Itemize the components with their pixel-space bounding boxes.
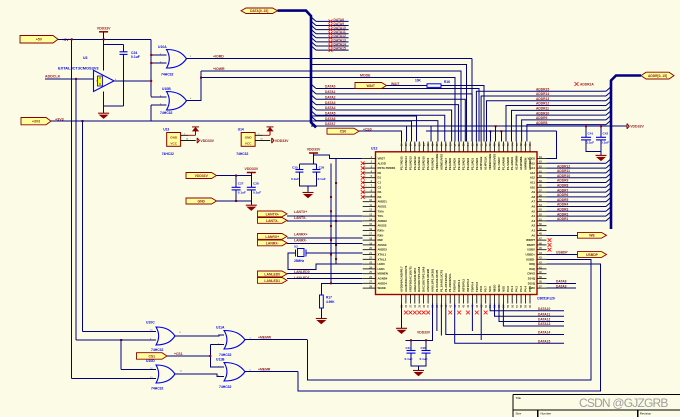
svg-text:P3.7/AD15: P3.7/AD15 bbox=[400, 156, 404, 170]
svg-text:+5V: +5V bbox=[62, 38, 69, 42]
capacitor C25 plates bbox=[295, 170, 303, 173]
svg-text:EMU: EMU bbox=[529, 286, 535, 290]
wire pin col to rail2 bbox=[495, 126, 497, 141]
svg-text:ADDR15: ADDR15 bbox=[536, 87, 549, 91]
svg-text:U14: U14 bbox=[238, 128, 244, 132]
svg-text:VDD33V: VDD33V bbox=[97, 26, 111, 30]
pin 7 U14 bbox=[255, 134, 262, 136]
wire U10D out to U11B in2 bbox=[175, 374, 224, 376]
svg-text:ADDR2A: ADDR2A bbox=[580, 82, 594, 86]
wire loop U11A output net bbox=[307, 259, 591, 380]
svg-text:DATA[0..15]: DATA[0..15] bbox=[250, 9, 268, 13]
svg-text:GND: GND bbox=[197, 199, 205, 203]
wire U14 pin7 to arrow bbox=[263, 134, 271, 136]
port CS0 bbox=[327, 128, 359, 134]
ic U12 top pins bbox=[402, 142, 531, 152]
power VDD33V U14 bbox=[272, 138, 274, 143]
wire to gnd bbox=[307, 186, 309, 193]
wire DATA14 with bus entry bbox=[311, 42, 316, 47]
wire WAIT to IC pin bbox=[441, 86, 484, 142]
wire vertical net C bbox=[82, 121, 84, 332]
svg-text:P3.1/AD9: P3.1/AD9 bbox=[426, 157, 430, 170]
title block border bbox=[513, 395, 680, 417]
wire DATA14 from bottom pin bbox=[446, 304, 564, 335]
svg-text:C41: C41 bbox=[588, 132, 594, 136]
svg-text:C28: C28 bbox=[253, 182, 259, 186]
junction bbox=[71, 38, 73, 40]
svg-text:AGND2/VSS: AGND2/VSS bbox=[493, 154, 497, 170]
capacitor C26 plates bbox=[312, 170, 320, 173]
wire V- pin to ground bbox=[103, 92, 105, 114]
svg-text:C2: C2 bbox=[378, 185, 382, 189]
svg-text:AVDD4: AVDD4 bbox=[378, 281, 388, 285]
svg-text:P0.6: P0.6 bbox=[479, 286, 483, 292]
pin 14 U14 bbox=[255, 140, 270, 142]
svg-text:ADDR12: ADDR12 bbox=[536, 102, 549, 106]
no-erc crosses right pins bbox=[548, 238, 552, 242]
svg-text:VDD33V: VDD33V bbox=[200, 139, 214, 143]
svg-text:P1.6/AIN6: P1.6/AIN6 bbox=[501, 157, 505, 170]
svg-text:AVSS1: AVSS1 bbox=[378, 205, 387, 209]
ic U12 right pins bbox=[537, 159, 547, 289]
svg-text:A11: A11 bbox=[530, 181, 535, 185]
svg-text:ADDR12: ADDR12 bbox=[557, 164, 570, 168]
wire LANLED0 bbox=[287, 273, 363, 275]
wire right-side row 5 (ADDR) with bus entry bbox=[547, 186, 602, 188]
ic U12 right pin numbers bbox=[539, 156, 542, 289]
svg-text:T1/P0.5: T1/P0.5 bbox=[475, 281, 479, 292]
port WE bbox=[578, 232, 607, 238]
power VDD33V above oscillator bbox=[99, 31, 108, 33]
wire DATA12 with bus entry bbox=[311, 33, 316, 38]
svg-text:ADDR11: ADDR11 bbox=[557, 169, 570, 173]
wire DATA8 bbox=[547, 282, 577, 284]
svg-text:P3.3/AD11: P3.3/AD11 bbox=[417, 156, 421, 170]
port LANTX- bbox=[258, 218, 288, 224]
svg-text:P2.2/AD2: P2.2/AD2 bbox=[466, 157, 470, 170]
svg-text:AVDD4/AGND/P0.7: AVDD4/AGND/P0.7 bbox=[400, 266, 404, 292]
svg-text:A10P/WRL: A10P/WRL bbox=[519, 156, 523, 170]
wire osc V- rail bbox=[104, 105, 124, 107]
power VDD33V terminal mid bbox=[247, 172, 256, 174]
svg-text:Size: Size bbox=[516, 411, 522, 415]
svg-text:Number: Number bbox=[541, 411, 552, 415]
svg-text:P3.5/AD13: P3.5/AD13 bbox=[408, 156, 412, 170]
wire DATA5 with bus entry bbox=[311, 111, 316, 116]
power box U14 74HC32 bbox=[241, 133, 255, 147]
port VDD33V bbox=[186, 173, 217, 179]
svg-text:MISO: MISO bbox=[493, 284, 497, 292]
svg-text:A0: A0 bbox=[531, 233, 535, 237]
ground bottom caps bbox=[413, 371, 424, 376]
svg-text:U3: U3 bbox=[83, 56, 88, 60]
wire VDD stem mid bbox=[250, 173, 252, 176]
svg-text:0.1uF: 0.1uF bbox=[253, 191, 261, 195]
svg-text:USBDP: USBDP bbox=[586, 253, 599, 257]
svg-text:REF: REF bbox=[378, 238, 384, 242]
bus ADDR spine bbox=[611, 76, 641, 230]
wire cap C27 bottom bbox=[235, 190, 237, 201]
ground oscillator bbox=[98, 113, 109, 118]
svg-text:D2-: D2- bbox=[378, 190, 383, 194]
capacitor C27 plates bbox=[232, 187, 241, 190]
svg-text:WE: WE bbox=[589, 234, 595, 238]
svg-text:A12: A12 bbox=[530, 176, 536, 180]
svg-text:0.1uF: 0.1uF bbox=[586, 141, 594, 145]
svg-text:ADDR8: ADDR8 bbox=[557, 184, 569, 188]
svg-text:+MEMW: +MEMW bbox=[258, 335, 272, 339]
svg-text:USBV: USBV bbox=[527, 248, 535, 252]
wire right-side row 0 (ADDR) with bus entry bbox=[547, 162, 602, 164]
junction rail upper bbox=[495, 125, 497, 127]
wire oscillator output bbox=[114, 80, 151, 82]
svg-text:C27: C27 bbox=[238, 182, 244, 186]
svg-text:ALE/D: ALE/D bbox=[378, 161, 386, 165]
svg-text:CSDN @GJZGRB: CSDN @GJZGRB bbox=[579, 396, 668, 410]
svg-text:P2.3/AD3: P2.3/AD3 bbox=[462, 157, 466, 170]
svg-text:+IOWR: +IOWR bbox=[213, 67, 225, 71]
ic U12 body bbox=[376, 152, 538, 295]
svg-text:P1.4/AIN4: P1.4/AIN4 bbox=[510, 157, 514, 170]
svg-text:RX0+: RX0+ bbox=[378, 229, 385, 233]
svg-text:GND: GND bbox=[245, 135, 253, 139]
junction bbox=[82, 120, 84, 122]
ic U12 top pin numbers bbox=[401, 143, 532, 146]
svg-text:C34: C34 bbox=[406, 346, 412, 350]
svg-text:LANLED1: LANLED1 bbox=[264, 279, 280, 283]
wire to U10C input2 bbox=[76, 339, 156, 341]
junction bbox=[150, 80, 152, 82]
wire +3V3 long to IC bbox=[151, 121, 411, 142]
svg-text:P2.1/AD1: P2.1/AD1 bbox=[470, 157, 474, 170]
svg-text:RD/P7: RD/P7 bbox=[527, 243, 536, 247]
wire ADDR8 with bus entry bbox=[527, 125, 601, 142]
svg-text:10K: 10K bbox=[415, 78, 422, 82]
svg-text:P1.3/RX1/SCL: P1.3/RX1/SCL bbox=[448, 273, 452, 292]
wire VDD rail upper bbox=[421, 125, 627, 127]
wire DATA15 with bus entry bbox=[311, 46, 316, 51]
port WAIT bbox=[355, 83, 387, 89]
wire ADDR14 with bus entry bbox=[481, 96, 601, 142]
svg-text:VDD33V: VDD33V bbox=[307, 148, 321, 152]
svg-text:P4.0: P4.0 bbox=[506, 286, 510, 292]
svg-text:AVDD1: AVDD1 bbox=[378, 200, 388, 204]
wire pin row26 bbox=[331, 282, 363, 284]
svg-text:DATA12: DATA12 bbox=[538, 318, 551, 322]
svg-text:DATA4: DATA4 bbox=[325, 106, 336, 110]
wire VDD rail lower bbox=[426, 130, 557, 132]
svg-text:U10A: U10A bbox=[158, 45, 167, 49]
svg-text:ADDR10: ADDR10 bbox=[536, 111, 549, 115]
wire to U11A in2 bbox=[210, 343, 224, 345]
svg-text:A13: A13 bbox=[530, 171, 536, 175]
svg-text:RSTA.TMOD1: RSTA.TMOD1 bbox=[378, 166, 396, 170]
svg-text:LANLED0: LANLED0 bbox=[264, 272, 280, 276]
wire U10B input1 bbox=[151, 96, 166, 98]
svg-text:VDD2/CORE: VDD2/CORE bbox=[488, 154, 492, 170]
wire IORD drop to pin bbox=[471, 59, 473, 142]
junction bbox=[200, 77, 202, 79]
svg-text:74HC32: 74HC32 bbox=[162, 152, 174, 156]
svg-text:0.1uF: 0.1uF bbox=[291, 177, 299, 181]
wire DATA11 with bus entry bbox=[311, 29, 316, 34]
wire DATA4 with bus entry bbox=[311, 105, 316, 110]
wire LANLED1 bbox=[287, 278, 363, 280]
svg-text:P1.0/AIN2.0/CP0: P1.0/AIN2.0/CP0 bbox=[435, 269, 439, 292]
svg-text:C35: C35 bbox=[421, 346, 427, 350]
svg-text:ADDR9: ADDR9 bbox=[557, 179, 569, 183]
svg-text:AVDD3: AVDD3 bbox=[378, 248, 388, 252]
svg-text:P2.0/AD0: P2.0/AD0 bbox=[475, 157, 479, 170]
wire net to pin col13 bbox=[311, 64, 466, 141]
svg-text:4.99K: 4.99K bbox=[326, 300, 335, 304]
wire V+ pin of oscillator bbox=[103, 45, 105, 71]
svg-text:WR/P7: WR/P7 bbox=[526, 238, 535, 242]
svg-text:TX0-: TX0- bbox=[378, 214, 384, 218]
svg-text:LANRX-: LANRX- bbox=[266, 241, 279, 245]
wire DATA12 from bottom pin bbox=[499, 304, 564, 322]
svg-text:DATA11: DATA11 bbox=[538, 312, 550, 316]
or-gate U10C 74HC32 bbox=[156, 327, 175, 345]
svg-text:DATA15: DATA15 bbox=[538, 340, 551, 344]
svg-text:25MHz: 25MHz bbox=[294, 259, 305, 263]
capacitor C28 plates bbox=[247, 187, 256, 190]
svg-text:ADDR9: ADDR9 bbox=[536, 116, 548, 120]
svg-text:LED1: LED1 bbox=[378, 267, 386, 271]
wires bottom pins short stubs bbox=[436, 304, 438, 332]
svg-text:ADDR11: ADDR11 bbox=[536, 107, 549, 111]
svg-text:P3.6/AD14: P3.6/AD14 bbox=[404, 156, 408, 170]
svg-text:AIN0.0/P1.0/KBI0: AIN0.0/P1.0/KBI0 bbox=[426, 268, 430, 292]
wire VDD pin row0 bbox=[547, 131, 557, 158]
wire right-side row 4 (ADDR) with bus entry bbox=[547, 182, 602, 184]
wire right-side row 11 (ADDR) with bus entry bbox=[547, 215, 602, 217]
wire VDD33V rail mid bbox=[217, 175, 252, 177]
svg-text:DAC1OUT/P3.3/A9: DAC1OUT/P3.3/A9 bbox=[422, 266, 426, 292]
wire +3V3 branch to U10B bbox=[51, 120, 151, 122]
svg-text:CS0: CS0 bbox=[340, 130, 347, 134]
port USBDP bbox=[578, 252, 607, 258]
svg-text:D0: D0 bbox=[378, 171, 382, 175]
ic U12 bottom pins bbox=[402, 295, 531, 304]
port LANRX- bbox=[258, 240, 288, 246]
wire to gnd b bbox=[418, 366, 420, 371]
svg-text:VDD1/CORE: VDD1/CORE bbox=[435, 154, 439, 170]
wire CS0 to pin col0 bbox=[359, 131, 402, 141]
ground mid block bbox=[246, 205, 257, 210]
wire ADDR11 with bus entry bbox=[512, 110, 602, 141]
svg-text:AREFA/AIN0.0/P2: AREFA/AIN0.0/P2 bbox=[413, 268, 417, 292]
resistor R16 10K bbox=[427, 84, 441, 88]
svg-text:P4.2: P4.2 bbox=[515, 286, 519, 292]
svg-text:Revision: Revision bbox=[640, 411, 652, 415]
wire vertical to gate U10A inputs bbox=[150, 39, 152, 96]
wire right-side row 6 (ADDR) with bus entry bbox=[547, 191, 602, 193]
wire to gnd mid bbox=[250, 201, 252, 205]
svg-text:ADDR6: ADDR6 bbox=[557, 193, 569, 197]
svg-text:ADDR14: ADDR14 bbox=[536, 92, 549, 96]
svg-text:D8Q: D8Q bbox=[529, 262, 536, 266]
wire cap C28 stub bbox=[250, 176, 252, 188]
svg-text:WAKE: WAKE bbox=[378, 286, 387, 290]
wire right-side row 10 (ADDR) with bus entry bbox=[547, 210, 602, 212]
wire U10B input2 bbox=[151, 104, 166, 106]
wire DATA10 with bus entry bbox=[311, 25, 316, 30]
svg-text:+5V: +5V bbox=[36, 38, 43, 42]
svg-text:P1.1/AIN3.1/CP1: P1.1/AIN3.1/CP1 bbox=[439, 269, 443, 292]
wire right-side row 1 (ADDR) with bus entry bbox=[547, 167, 602, 169]
capacitor C42 plates bbox=[596, 137, 606, 140]
wire net col1 bbox=[311, 126, 406, 141]
svg-text:A14P/CLK: A14P/CLK bbox=[484, 156, 488, 170]
ic U12 top pin names bbox=[400, 154, 533, 170]
svg-text:P4.1: P4.1 bbox=[510, 286, 514, 292]
svg-text:P0.7: P0.7 bbox=[484, 286, 488, 292]
wire to U10D input1 bbox=[121, 369, 156, 371]
svg-text:Title: Title bbox=[516, 396, 522, 400]
wire right-side row 7 (ADDR) with bus entry bbox=[547, 196, 602, 198]
svg-text:D3-: D3- bbox=[378, 195, 383, 199]
svg-text:U12: U12 bbox=[371, 147, 377, 151]
bus DATA vertical spine bbox=[278, 11, 317, 128]
svg-text:P4.3: P4.3 bbox=[519, 286, 523, 292]
svg-text:DATA1: DATA1 bbox=[325, 90, 336, 94]
wire ADDR13 with bus entry bbox=[487, 101, 602, 142]
capacitor C42 bbox=[600, 126, 602, 137]
svg-text:P1.2/TX1/SDA: P1.2/TX1/SDA bbox=[444, 272, 448, 292]
capacitor C24 bbox=[120, 52, 128, 55]
svg-text:D14Q: D14Q bbox=[528, 277, 536, 281]
wire R17 to gnd bbox=[320, 308, 322, 319]
svg-text:R16: R16 bbox=[444, 80, 450, 84]
ground caps right bbox=[596, 155, 607, 160]
wire USBDP bbox=[547, 254, 578, 256]
svg-text:LANRX+: LANRX+ bbox=[294, 233, 308, 237]
no-erc crosses bottom pins bbox=[404, 311, 408, 315]
wire right-side row 2 (ADDR) with bus entry bbox=[547, 172, 602, 174]
svg-text:P1.5/AIN5: P1.5/AIN5 bbox=[506, 157, 510, 170]
svg-text:DATA2: DATA2 bbox=[325, 95, 336, 99]
svg-text:VDD33V: VDD33V bbox=[244, 167, 258, 171]
svg-text:MODE: MODE bbox=[360, 74, 371, 78]
ground R17 bbox=[316, 319, 327, 324]
svg-text:P2.6/AD6: P2.6/AD6 bbox=[448, 157, 452, 170]
wire DATA11 from bottom pin bbox=[495, 304, 565, 317]
no-erc crosses left pins bbox=[361, 161, 365, 198]
ic U12 left pin numbers bbox=[369, 156, 372, 289]
wire ADDCLK input bbox=[45, 78, 94, 80]
power VDD33V left of IC bbox=[309, 152, 318, 154]
svg-text:A11P/WRH: A11P/WRH bbox=[515, 156, 519, 170]
svg-text:P3.0/AD8: P3.0/AD8 bbox=[431, 157, 435, 170]
svg-text:C1: C1 bbox=[378, 181, 382, 185]
svg-text:D15Q: D15Q bbox=[528, 281, 536, 285]
wire DATA8 with bus entry bbox=[311, 17, 316, 22]
port GND bbox=[186, 198, 217, 204]
svg-text:AGND3/DAC0OUT1: AGND3/DAC0OUT1 bbox=[404, 265, 408, 292]
svg-text:VCC: VCC bbox=[245, 141, 252, 145]
wire to U10C input1 bbox=[83, 331, 157, 333]
wire cap C24 top stub bbox=[123, 45, 125, 52]
wire U13 pin7 to arrow bbox=[188, 134, 196, 136]
svg-text:INT1/P0.3: INT1/P0.3 bbox=[466, 279, 470, 292]
wire loop U11B output net bbox=[298, 264, 600, 391]
svg-text:U11B: U11B bbox=[216, 358, 225, 362]
wire cap C28 bottom bbox=[250, 190, 252, 201]
svg-text:+CS1: +CS1 bbox=[174, 352, 183, 356]
svg-text:P2.4/AD4: P2.4/AD4 bbox=[457, 157, 461, 170]
ic U12 left pins bbox=[363, 159, 376, 289]
wire VDD stem bbox=[103, 32, 105, 45]
ic U12 bottom pin names bbox=[400, 265, 533, 292]
svg-text:DATA10: DATA10 bbox=[538, 307, 551, 311]
svg-text:DATA5: DATA5 bbox=[325, 112, 336, 116]
svg-text:74HC32: 74HC32 bbox=[160, 111, 173, 115]
svg-text:VDD33V: VDD33V bbox=[417, 331, 431, 335]
wire net col3 bbox=[311, 116, 416, 141]
wire cap C34 stub bbox=[410, 340, 412, 350]
port CS1 bbox=[137, 353, 168, 360]
wire vertical collector1 bbox=[330, 163, 332, 283]
svg-text:DATA14: DATA14 bbox=[538, 331, 551, 335]
svg-text:D9Q: D9Q bbox=[529, 267, 536, 271]
svg-text:ADDR7: ADDR7 bbox=[557, 188, 569, 192]
svg-text:U10C: U10C bbox=[146, 321, 155, 325]
wire cap C35 stub bbox=[425, 340, 427, 350]
or-gate U10B 74HC32 bbox=[167, 92, 187, 111]
svg-text:74HC32: 74HC32 bbox=[219, 385, 232, 389]
wire +5V rail bbox=[58, 38, 151, 40]
ic U12 bottom pin numbers bbox=[401, 304, 532, 307]
junction bbox=[235, 200, 237, 202]
svg-text:P1.7/AIN7: P1.7/AIN7 bbox=[497, 157, 501, 170]
svg-text:A2: A2 bbox=[531, 224, 535, 228]
capacitor C41 bbox=[585, 126, 587, 137]
svg-text:ADDR[0..15]: ADDR[0..15] bbox=[648, 74, 667, 78]
svg-text:LANTX-: LANTX- bbox=[294, 216, 306, 220]
svg-text:0.1uF: 0.1uF bbox=[601, 141, 609, 145]
wire DATA13 from bottom pin bbox=[503, 304, 564, 327]
junction bbox=[150, 54, 152, 56]
svg-text:ADDR2: ADDR2 bbox=[557, 212, 569, 216]
svg-text:AVSS2: AVSS2 bbox=[378, 224, 387, 228]
svg-text:ADDR5: ADDR5 bbox=[557, 198, 569, 202]
junction VDD/+5V bbox=[103, 38, 105, 40]
svg-text:VDD33V: VDD33V bbox=[195, 174, 209, 178]
wire DATA9 bbox=[547, 287, 577, 289]
wire pin col to rail bbox=[489, 131, 491, 141]
wire caps bottom rail b bbox=[411, 353, 426, 366]
svg-text:A15P/ALE: A15P/ALE bbox=[479, 156, 483, 170]
svg-text:TX0+: TX0+ bbox=[378, 209, 385, 213]
power VDD33V U13 bbox=[197, 138, 199, 143]
wire caps top rail bbox=[299, 163, 316, 165]
or-gate U11B 74HC32 bbox=[224, 363, 245, 382]
svg-text:LANRX+: LANRX+ bbox=[265, 235, 279, 239]
wire to U10D input2 bbox=[72, 378, 156, 380]
svg-text:0.1uF: 0.1uF bbox=[318, 177, 326, 181]
svg-text:DATA3: DATA3 bbox=[325, 101, 336, 105]
crystal Y2 bbox=[296, 249, 307, 257]
svg-text:P2.5/AD5: P2.5/AD5 bbox=[453, 157, 457, 170]
junction bbox=[75, 78, 77, 80]
wire corner from +3V3 line bbox=[150, 105, 152, 121]
svg-text:ADDR3: ADDR3 bbox=[557, 208, 569, 212]
wire LANRX- bbox=[287, 243, 363, 245]
svg-text:P3.2/AD10: P3.2/AD10 bbox=[422, 156, 426, 170]
svg-text:A14: A14 bbox=[530, 166, 536, 170]
svg-text:XTAL2: XTAL2 bbox=[378, 257, 387, 261]
